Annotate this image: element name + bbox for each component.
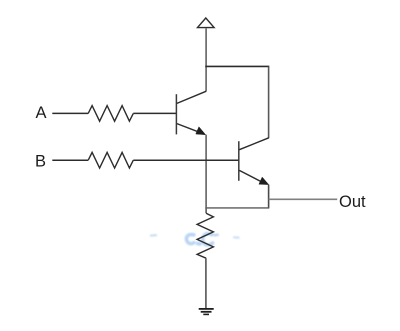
transistor Q1 bbox=[176, 91, 206, 135]
wire: input B lead bbox=[52, 159, 88, 161]
wire: input A lead bbox=[52, 112, 88, 114]
wire: right vertical down to Q2 collector bbox=[268, 66, 270, 138]
VCC power symbol bbox=[198, 18, 215, 28]
ground bbox=[199, 309, 214, 315]
resistor B (input B) bbox=[88, 152, 133, 168]
wire: rail to emitter resistor top lead bbox=[205, 208, 207, 213]
wire: resistor bottom lead to ground bbox=[205, 258, 207, 309]
wire: Q1 emitter down to summing rail bbox=[205, 135, 207, 208]
emitter resistor (to ground) bbox=[197, 213, 213, 258]
svg-text:A: A bbox=[36, 104, 47, 122]
wire: output lead bbox=[269, 198, 338, 200]
svg-text:B: B bbox=[35, 153, 46, 171]
wire: emitter summing rail bbox=[205, 207, 269, 209]
wire: Q2 emitter down to summing rail bbox=[268, 185, 270, 208]
wire: resistor B to Q2 base bbox=[133, 159, 239, 161]
wire: top horizontal branch to Q2 collector bbox=[205, 65, 269, 67]
wire: resistor A to Q1 base bbox=[133, 112, 176, 114]
wire: VCC lead down to Q1 collector bend bbox=[205, 28, 207, 91]
transistor Q2 bbox=[239, 138, 269, 185]
resistor A (input A) bbox=[88, 106, 133, 122]
svg-text:Out: Out bbox=[339, 193, 366, 211]
